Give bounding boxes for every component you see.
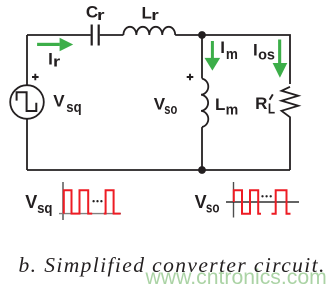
svg-text:R: R xyxy=(255,94,267,113)
svg-text:sq: sq xyxy=(66,99,81,116)
svg-text:V: V xyxy=(53,91,65,110)
svg-text:V: V xyxy=(195,192,207,212)
svg-text:V: V xyxy=(25,192,37,212)
svg-text:so: so xyxy=(206,200,220,217)
svg-text:I: I xyxy=(253,40,258,59)
svg-text:m: m xyxy=(226,46,238,63)
svg-text:r: r xyxy=(53,53,60,70)
svg-text:I: I xyxy=(220,38,225,57)
svg-text:m: m xyxy=(226,102,239,119)
svg-text:r: r xyxy=(151,7,159,24)
svg-text:os: os xyxy=(258,47,275,64)
svg-text:r: r xyxy=(97,7,105,24)
svg-text:so: so xyxy=(164,101,177,118)
svg-text:sq: sq xyxy=(37,200,52,217)
svg-text:L: L xyxy=(215,95,225,114)
svg-text:b. Simplified converter circui: b. Simplified converter circuit. xyxy=(19,253,326,277)
svg-text:L: L xyxy=(268,101,275,118)
